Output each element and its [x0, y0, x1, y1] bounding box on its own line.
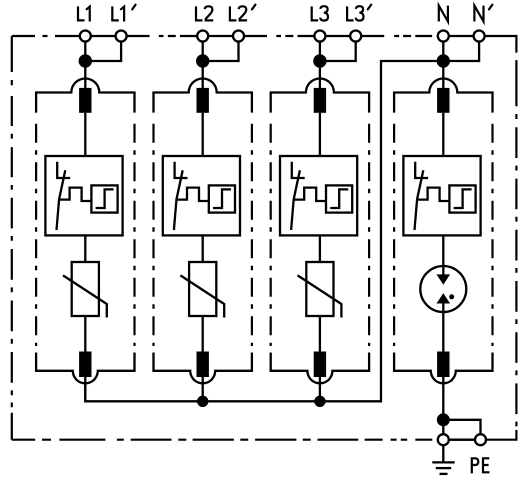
label PE — [472, 458, 479, 473]
wire disconnector to trigger unit L3 — [319, 113, 321, 156]
varistor L3 — [298, 262, 342, 318]
node junction N — [437, 54, 450, 67]
wire disconnector to trigger unit N — [442, 113, 444, 156]
wire L1 arrester to PE bus — [84, 377, 86, 401]
trigger/monitoring unit symbol L2 (disconnect switch with pulse waveform) — [163, 156, 240, 235]
wire trigger unit to arrester L3 — [319, 235, 321, 262]
wire varistor to bottom disconnector L1 — [84, 316, 86, 353]
terminal N&#180; — [474, 31, 485, 42]
thermal disconnector (top) L3 — [314, 88, 326, 113]
wire spark gap to bottom disconnector — [442, 302, 444, 353]
thermal disconnector (bottom) L3 — [314, 352, 326, 378]
thermal disconnector (bottom) L2 — [197, 352, 209, 378]
wire N to junction — [442, 42, 444, 91]
node junction L1 — [79, 54, 92, 67]
wire varistor to bottom disconnector L3 — [319, 316, 321, 353]
label L2 — [196, 6, 203, 20]
terminal L1 — [80, 31, 91, 42]
wire N terminals link — [449, 35, 474, 37]
module enclosure L3 (dash-dot box with entry arcs) — [271, 79, 369, 113]
node junction L3 — [313, 54, 326, 67]
terminal L2 — [197, 31, 208, 42]
label L1 — [78, 6, 85, 20]
thermal disconnector (top) L2 — [197, 88, 209, 113]
label L2&#180; — [230, 6, 237, 20]
label L3&#180; — [347, 6, 354, 20]
node N-PE junction — [437, 413, 450, 426]
thermal disconnector (bottom) L1 — [79, 352, 91, 378]
terminal L3 — [314, 31, 325, 42]
wire disconnector to trigger unit L1 — [84, 113, 86, 156]
node bus junction L2 — [197, 396, 208, 407]
terminal L3&#180; — [350, 31, 361, 42]
label L3 — [312, 6, 319, 20]
wire L2 to junction — [202, 42, 204, 91]
module enclosure L1 (dash-dot box with entry arcs) — [36, 79, 134, 113]
ground symbol — [432, 445, 454, 474]
wire trigger unit to arrester L1 — [84, 235, 86, 262]
terminal L2&#180; — [233, 31, 244, 42]
wire L3 terminals link — [325, 35, 350, 37]
wire L2&#180; to junction — [203, 42, 239, 62]
label N — [439, 6, 448, 22]
spark gap N-PE — [420, 266, 466, 312]
wire L2 terminals link — [208, 35, 233, 37]
wire trigger unit to arrester N — [442, 235, 444, 276]
trigger/monitoring unit symbol L3 (disconnect switch with pulse waveform) — [280, 156, 357, 235]
wire L1&#180; to junction — [85, 42, 121, 62]
terminal PE (output side) — [475, 434, 486, 445]
wire L3 to junction — [319, 42, 321, 91]
jumper wire PE terminal link — [447, 420, 481, 435]
thermal disconnector (top) N — [437, 88, 449, 113]
label L1&#180; — [112, 6, 119, 20]
module enclosure N (dash-dot box with entry arcs) — [394, 79, 492, 113]
thermal disconnector (bottom) N — [437, 352, 449, 378]
wire L1 to junction — [84, 42, 86, 91]
wire N arrester to PE bus — [442, 377, 444, 435]
terminal PE (ground side) — [438, 434, 449, 445]
wire N&#180; to junction — [443, 42, 479, 62]
wire L1 terminals link — [91, 35, 116, 37]
node bus junction L3 — [314, 396, 325, 407]
terminal L1&#180; — [116, 31, 127, 42]
varistor L2 — [180, 262, 224, 318]
trigger/monitoring unit symbol N (disconnect switch with pulse waveform) — [403, 156, 480, 235]
node junction L2 — [196, 54, 209, 67]
terminal N — [438, 31, 449, 42]
wire trigger unit to arrester L2 — [202, 235, 204, 262]
wire varistor to bottom disconnector L2 — [202, 316, 204, 353]
thermal disconnector (top) L1 — [79, 88, 91, 113]
wire PE terminals link — [443, 439, 480, 441]
label N&#180; — [474, 6, 483, 22]
wire L3&#180; to junction — [320, 42, 356, 62]
varistor L1 — [63, 262, 107, 318]
trigger/monitoring unit symbol L1 (disconnect switch with pulse waveform) — [45, 156, 122, 235]
module enclosure L2 (dash-dot box with entry arcs) — [154, 79, 252, 113]
wire disconnector to trigger unit L2 — [202, 113, 204, 156]
wire L2 arrester to PE bus — [202, 377, 204, 401]
wire L3 arrester to PE bus — [319, 377, 321, 401]
PE bus wire (varistor commons to N junction riser) — [85, 61, 436, 401]
